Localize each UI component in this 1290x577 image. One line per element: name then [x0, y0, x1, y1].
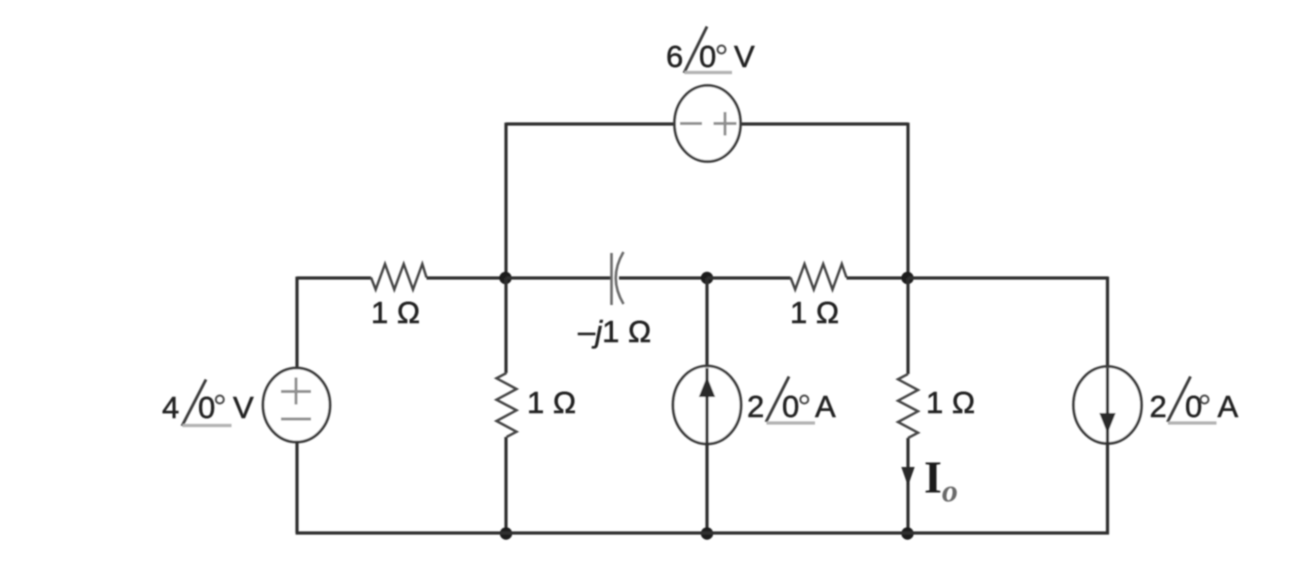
label 4∠0° V — [162, 380, 254, 427]
wire: capacitor to node B — [619, 276, 707, 279]
wire: I2 to bottom rail — [1106, 442, 1109, 534]
wire: top loop left vertical — [504, 123, 507, 278]
node B dot — [701, 272, 713, 284]
Io arrowhead down on wire — [901, 467, 914, 486]
svg-text:Io: Io — [924, 452, 958, 509]
V1 minus sign — [281, 418, 311, 421]
svg-text:0: 0 — [198, 390, 215, 425]
node E dot (bottom, under A) — [500, 527, 512, 539]
resistor R2 1Ω horizontal zigzag — [791, 264, 847, 290]
wire: node A to capacitor — [506, 276, 612, 279]
wire: node B down to current source I1 — [705, 278, 708, 367]
I2 arrow shaft — [1106, 368, 1109, 442]
svg-text:4: 4 — [162, 390, 179, 425]
resistor R3 1Ω vertical zigzag — [497, 373, 517, 437]
svg-text:2: 2 — [747, 389, 764, 424]
wire: middle rail from left branch to R1 — [297, 276, 371, 279]
svg-text:0: 0 — [699, 39, 716, 74]
V2 plus sign — [714, 112, 737, 136]
svg-text:–j1 Ω: –j1 Ω — [578, 314, 651, 349]
label 2∠0° A right — [1150, 377, 1239, 425]
wire: R2 to node C — [847, 276, 909, 279]
svg-text:1 Ω: 1 Ω — [371, 295, 420, 330]
voltage source V2 6∠0°V circle — [675, 86, 741, 162]
label -j1 Ω — [578, 314, 651, 349]
wire: R4 down to bottom rail — [906, 438, 909, 533]
wire: middle rail R1 to node A — [427, 276, 507, 279]
wire: R3 down to bottom rail — [504, 437, 507, 533]
svg-text:6: 6 — [666, 39, 683, 74]
wire: left branch bottom vertical — [295, 442, 298, 533]
I2 arrowhead down — [1099, 413, 1115, 434]
capacitor C1 right curved plate — [616, 252, 624, 304]
wire: node C to right branch corner — [908, 276, 1108, 279]
I1 arrow shaft — [705, 368, 708, 442]
label 2∠0° A middle — [747, 377, 836, 425]
resistor R4 1Ω vertical zigzag — [898, 374, 918, 438]
svg-text:0: 0 — [782, 389, 799, 424]
svg-text:1 Ω: 1 Ω — [527, 385, 576, 420]
wire: right branch top vertical — [1106, 277, 1109, 367]
node A dot — [499, 272, 511, 284]
resistor R1 1Ω horizontal zigzag — [371, 264, 427, 290]
svg-text:0: 0 — [1185, 389, 1202, 424]
wire: I1 to bottom rail — [705, 442, 708, 533]
svg-text:2: 2 — [1150, 389, 1167, 424]
I1 arrowhead up — [699, 377, 715, 398]
V2 minus sign — [680, 122, 702, 125]
V1 plus sign — [281, 378, 311, 405]
svg-text:A: A — [815, 389, 836, 424]
voltage source V1 4∠0°V circle — [263, 368, 330, 442]
capacitor C1 left plate — [610, 253, 613, 305]
svg-text:1 Ω: 1 Ω — [926, 385, 975, 420]
wire: left branch top vertical — [295, 277, 298, 371]
svg-text:V: V — [734, 39, 755, 74]
wire: node B to R2 — [707, 276, 791, 279]
label 6∠0° V — [666, 27, 755, 75]
wire: node A down to R3 — [504, 278, 507, 373]
node G dot (bottom, under C) — [901, 527, 913, 539]
wire: top rail right segment — [741, 122, 908, 125]
current source I1 2∠0°A circle — [673, 366, 741, 444]
svg-text:V: V — [233, 390, 254, 425]
wire: top loop right vertical — [906, 123, 909, 278]
current source I2 2∠0°A circle — [1074, 367, 1142, 444]
wire: top rail left segment — [506, 122, 674, 125]
node F dot (bottom, under B) — [701, 527, 713, 539]
node C dot — [901, 272, 913, 284]
wire: bottom rail — [296, 531, 1109, 534]
svg-text:1 Ω: 1 Ω — [790, 295, 839, 330]
wire: node C down to R4 — [906, 278, 909, 374]
svg-text:A: A — [1218, 389, 1239, 424]
